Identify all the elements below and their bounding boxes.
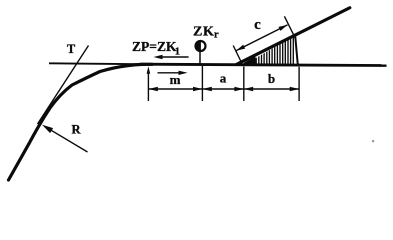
diagonal sight line: [237, 8, 350, 65]
dim arrowhead m right: [193, 87, 202, 92]
svg-text:a: a: [220, 71, 227, 86]
extension line 4: [298, 67, 300, 101]
solid wedge near vertex: [243, 56, 256, 66]
c extension tick left: [233, 46, 242, 64]
point symbol (half-filled circle): [196, 41, 206, 51]
arrow right (m direction): [158, 72, 185, 74]
svg-text:1: 1: [175, 46, 180, 57]
svg-text:m: m: [170, 72, 181, 87]
dim arrowhead b left: [244, 87, 253, 92]
radius arrow R: [46, 127, 88, 152]
tangent line T: [38, 46, 89, 125]
svg-text:b: b: [268, 71, 275, 86]
main tangent line (thin left part): [49, 63, 152, 64]
c extension tick right: [284, 16, 295, 38]
svg-text:r: r: [214, 30, 219, 41]
svg-text:T: T: [67, 42, 76, 56]
arrow left (ZP direction): [157, 56, 189, 58]
faint speck: [372, 140, 374, 142]
svg-text:ZK: ZK: [193, 25, 214, 40]
dim arrowhead m left: [148, 87, 157, 92]
svg-text:R: R: [71, 123, 81, 137]
dim arrowhead a left: [202, 87, 211, 92]
svg-text:c: c: [254, 17, 261, 33]
dim arrowhead b right: [290, 87, 299, 92]
hatch right edge: [295, 36, 298, 65]
extension line 1 (ZP) with up arrow: [147, 70, 149, 101]
main axis line (thick): [140, 64, 387, 65]
extension line 3: [243, 67, 245, 102]
stem of point symbol: [199, 52, 201, 64]
transition curve: [9, 64, 153, 180]
c dimension line: [236, 25, 287, 51]
dim arrowhead a right: [234, 87, 243, 92]
dimension line m-a-b: [148, 88, 299, 90]
svg-text:ZP=ZK: ZP=ZK: [132, 39, 177, 54]
extension line 2: [201, 66, 203, 101]
